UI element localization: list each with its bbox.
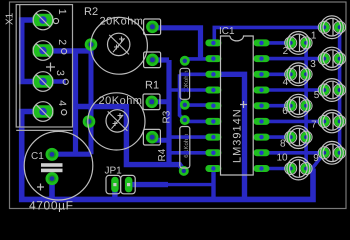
pads LED7 bbox=[319, 116, 330, 127]
LED5 outline bbox=[318, 79, 345, 102]
svg-text:3: 3 bbox=[54, 70, 66, 76]
wire R1 bottom-right pad stub bbox=[152, 137, 169, 140]
pads LED1 bbox=[319, 22, 330, 33]
svg-text:1: 1 bbox=[56, 9, 68, 15]
LED2 outline bbox=[285, 32, 312, 55]
wire pad3 right stub bbox=[43, 79, 66, 84]
screw circle pad3 bbox=[33, 72, 53, 92]
wire pad2 to R2 left pad bbox=[43, 48, 91, 53]
wire IC pin16 to LED4 bbox=[262, 73, 291, 77]
wire R4 top row3 horizontal bbox=[180, 73, 214, 77]
pad R4 bottom bbox=[179, 166, 189, 176]
wire C1 top pad horizontal bbox=[52, 152, 91, 157]
LED silkscreen circles bbox=[285, 16, 346, 180]
svg-text:R1: R1 bbox=[145, 80, 159, 92]
pads LED10 bbox=[285, 163, 296, 174]
pads LED6 bbox=[285, 100, 296, 111]
svg-text:C1: C1 bbox=[31, 151, 44, 162]
svg-text:4: 4 bbox=[56, 100, 68, 106]
R3 body bbox=[180, 68, 190, 99]
LED4 outline bbox=[285, 63, 312, 86]
pad JP1-2 bbox=[125, 177, 132, 193]
LED9 outline bbox=[318, 141, 345, 164]
svg-text:2: 2 bbox=[283, 46, 289, 57]
pads LED5 bbox=[319, 85, 330, 96]
pad R1 bottom-right bbox=[146, 131, 159, 144]
pad R3 top bbox=[180, 56, 190, 66]
wire IC pin9 drop to bottom rail bbox=[211, 169, 215, 200]
C1 plate bars bbox=[41, 163, 63, 167]
R2 right tabs bbox=[144, 19, 161, 35]
pad IC1 pin16 bbox=[254, 71, 270, 78]
pad R2 left bbox=[85, 38, 98, 51]
pad IC1 pin8 bbox=[205, 149, 221, 156]
wire JP1 left pad drop bbox=[112, 185, 117, 200]
wire LED odd column rail bbox=[338, 27, 342, 153]
connector X1 pads bbox=[33, 14, 54, 118]
LED7 outline bbox=[318, 110, 345, 133]
pad X1-1 bbox=[33, 14, 54, 26]
wire R3 top to IC pin2 bbox=[185, 59, 214, 61]
svg-text:9: 9 bbox=[313, 153, 319, 164]
LED8 outline bbox=[285, 126, 312, 149]
wire IC pin17 to LED3 bbox=[262, 57, 325, 61]
pad R2 top-right bbox=[146, 21, 159, 34]
svg-text:20Kohm: 20Kohm bbox=[100, 16, 144, 28]
wire IC pin18 to LED2 bbox=[262, 41, 291, 45]
R1 trimmer symbol bbox=[106, 110, 128, 132]
pad IC1 pin11 bbox=[254, 149, 270, 156]
wire net pad1-pad3 bbox=[22, 20, 43, 82]
pads LED2 bbox=[285, 38, 296, 49]
pad IC1 pin17 bbox=[254, 55, 270, 62]
LED6 outline bbox=[285, 94, 312, 117]
svg-text:3: 3 bbox=[310, 59, 316, 70]
pads LED9 bbox=[319, 148, 330, 159]
pad IC1 pin13 bbox=[254, 118, 270, 125]
wire spine branch to IC pin7 bbox=[169, 135, 213, 139]
LED pads bbox=[285, 22, 345, 174]
pad IC1 pin3 bbox=[205, 71, 221, 78]
screw circle pad1 bbox=[33, 10, 53, 30]
pads LED4 bbox=[285, 69, 296, 80]
JP1 outline left bbox=[106, 175, 121, 193]
LED10 outline bbox=[285, 157, 312, 180]
wire riser to R4 top bbox=[180, 74, 185, 120]
C1 circle bbox=[24, 131, 93, 200]
pads LED8 bbox=[285, 132, 296, 143]
wire IC pin10 to LED10 bbox=[262, 167, 291, 171]
pad IC1 pin10 bbox=[254, 165, 270, 172]
pad IC1 pin2 bbox=[205, 55, 221, 62]
wire LED even column rail bbox=[304, 43, 308, 169]
svg-text:10: 10 bbox=[277, 153, 289, 164]
C1 pads bbox=[46, 148, 59, 185]
wire spine branch to IC pin8 bbox=[169, 151, 213, 155]
wire R2 top-right pad to IC pin2 elbow bbox=[152, 28, 200, 59]
connector plus mark bbox=[46, 63, 55, 72]
pad C1 plus bbox=[46, 148, 59, 161]
wire spine branch to IC pin4 bbox=[169, 88, 213, 92]
wire R3 bottom to IC pin5 bbox=[185, 103, 214, 107]
svg-text:R4: R4 bbox=[157, 148, 168, 161]
svg-text:4700µF: 4700µF bbox=[29, 199, 74, 213]
wire R4 top to IC pin6 bbox=[185, 120, 214, 124]
JP1 outline right bbox=[121, 175, 136, 193]
svg-text:X1: X1 bbox=[5, 12, 16, 25]
svg-text:LM3914N: LM3914N bbox=[231, 108, 243, 163]
pad C1 minus bbox=[46, 172, 59, 185]
wire LED9 left pad descent to bottom rail bbox=[306, 153, 324, 168]
svg-text:R2: R2 bbox=[84, 6, 98, 18]
pad X1-3 bbox=[33, 75, 54, 88]
svg-text:2: 2 bbox=[56, 39, 68, 45]
svg-text:4: 4 bbox=[283, 77, 289, 88]
R1 right tabs bbox=[143, 94, 160, 110]
pad IC1 pin7 bbox=[205, 134, 221, 141]
wire IC pin12 to LED8 bbox=[262, 135, 291, 139]
pad IC1 pin5 bbox=[205, 102, 221, 109]
pad R1 left bbox=[83, 115, 96, 128]
svg-text:5: 5 bbox=[314, 90, 320, 101]
pad IC1 pin14 bbox=[254, 102, 270, 109]
svg-text:1: 1 bbox=[311, 31, 317, 42]
connector bottom second line bbox=[16, 129, 72, 131]
R1 circle bbox=[88, 93, 145, 150]
JP1 pads bbox=[111, 177, 132, 193]
wire IC internal pin3 to bottom rail bbox=[213, 74, 244, 199]
R1 pads bbox=[83, 96, 159, 144]
svg-text:JP1: JP1 bbox=[105, 166, 123, 177]
connector X1 outline bbox=[16, 5, 72, 127]
R2 trimmer symbol bbox=[108, 33, 130, 55]
wire R1 top-right pad stub bbox=[152, 99, 169, 104]
IC1 outline bbox=[221, 36, 254, 175]
wire R2 left to R1 left vertical bbox=[89, 45, 94, 155]
pad R3 bottom bbox=[180, 100, 190, 110]
svg-text:IC1: IC1 bbox=[219, 26, 235, 37]
R2 circle bbox=[91, 17, 148, 74]
pad IC1 pin18 bbox=[254, 39, 270, 46]
wire IC pin1 riser to LED1 bbox=[214, 27, 324, 43]
R4 pads bbox=[179, 115, 190, 176]
LED1 outline bbox=[318, 16, 345, 39]
wire thick middle net to JP1 and R4 bottom bbox=[76, 107, 184, 171]
wire JP1 right pad to IC pin9 column bbox=[129, 182, 168, 187]
svg-text:8: 8 bbox=[280, 139, 286, 150]
wire JP1 right horizontal thin continuation bbox=[168, 183, 214, 186]
pad R2 bottom-right bbox=[146, 54, 159, 67]
svg-text:20Kohm: 20Kohm bbox=[99, 95, 143, 107]
screw circle pad4 bbox=[33, 102, 53, 122]
small circle pad1 bbox=[53, 18, 58, 23]
pad X1-4 bbox=[33, 105, 54, 118]
pad JP1-1 bbox=[111, 177, 119, 193]
pad IC1 pin12 bbox=[254, 134, 270, 141]
wire IC pin15 to LED5 bbox=[262, 88, 325, 92]
connector inner line bbox=[19, 5, 21, 127]
wire R2 bottom-right vertical spine bbox=[166, 60, 171, 165]
small circle pad4 bbox=[61, 110, 66, 115]
pad R1 top-right bbox=[146, 96, 159, 109]
pad IC1 pin9 bbox=[205, 165, 221, 172]
wire IC pin14 to LED6 bbox=[262, 104, 291, 108]
svg-text:R3: R3 bbox=[162, 110, 173, 123]
IC1 pads bbox=[205, 39, 269, 172]
wire net pad4 to bottom ground rail to LED10 bbox=[22, 112, 313, 200]
pad IC1 pin15 bbox=[254, 87, 270, 94]
pad IC1 pin1 bbox=[205, 39, 221, 46]
LED3 outline bbox=[318, 47, 345, 70]
svg-text:6: 6 bbox=[282, 106, 288, 117]
small circle pad3 bbox=[63, 79, 68, 84]
wire vertical branch along connector edge bbox=[73, 51, 78, 154]
wire R2 bottom-right pad stub bbox=[152, 57, 169, 62]
pad IC1 pin4 bbox=[205, 87, 221, 94]
R3 pads bbox=[180, 56, 190, 110]
IC1 plus mark bbox=[240, 101, 247, 108]
wire C1 bottom pad drop bbox=[49, 179, 55, 200]
silkscreen bbox=[16, 5, 253, 200]
wire IC pin11 to LED9 bbox=[262, 151, 325, 155]
pads LED3 bbox=[319, 53, 330, 64]
pad IC1 pin6 bbox=[205, 118, 221, 125]
C1 plus mark bbox=[37, 184, 44, 191]
R4 body bbox=[180, 127, 190, 169]
pad X1-2 bbox=[33, 44, 54, 57]
R2 pads bbox=[85, 21, 159, 67]
svg-text:7: 7 bbox=[311, 120, 317, 131]
wire IC pin13 to LED7 bbox=[262, 120, 325, 124]
small circle pad2 bbox=[61, 49, 66, 54]
screw circle pad2 bbox=[33, 41, 53, 61]
pad R4 top bbox=[180, 115, 190, 125]
